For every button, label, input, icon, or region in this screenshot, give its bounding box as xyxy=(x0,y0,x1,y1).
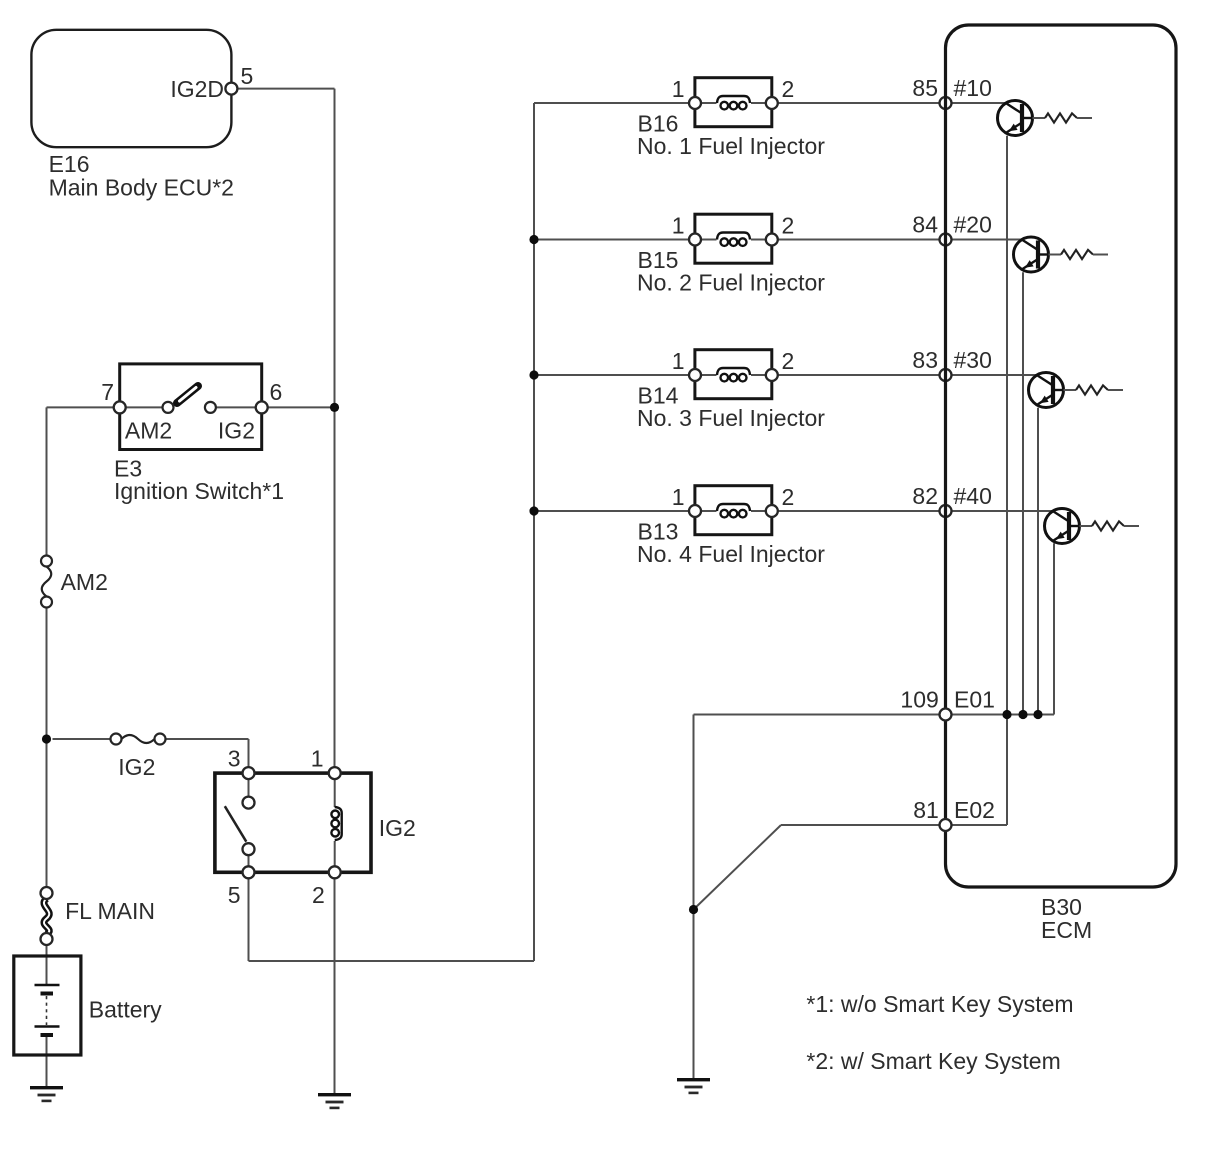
svg-text:AM2: AM2 xyxy=(125,417,172,443)
svg-text:*2: w/ Smart Key System: *2: w/ Smart Key System xyxy=(806,1048,1060,1074)
svg-text:AM2: AM2 xyxy=(61,569,108,595)
svg-text:#40: #40 xyxy=(954,483,992,509)
svg-text:1: 1 xyxy=(672,348,685,374)
svg-text:#30: #30 xyxy=(954,347,992,373)
svg-text:2: 2 xyxy=(312,882,325,908)
svg-text:85: 85 xyxy=(912,75,938,101)
svg-text:No. 4 Fuel Injector: No. 4 Fuel Injector xyxy=(637,541,825,567)
svg-text:#20: #20 xyxy=(954,212,992,238)
svg-text:82: 82 xyxy=(912,483,938,509)
svg-text:No. 2 Fuel Injector: No. 2 Fuel Injector xyxy=(637,270,825,296)
svg-text:*1: w/o Smart Key System: *1: w/o Smart Key System xyxy=(806,991,1073,1017)
svg-text:84: 84 xyxy=(912,212,938,238)
svg-text:IG2: IG2 xyxy=(118,754,155,780)
svg-text:FL MAIN: FL MAIN xyxy=(65,898,155,924)
svg-text:81: 81 xyxy=(913,797,939,823)
svg-text:No. 3 Fuel Injector: No. 3 Fuel Injector xyxy=(637,405,825,431)
svg-text:7: 7 xyxy=(101,379,114,405)
svg-text:IG2: IG2 xyxy=(379,815,416,841)
svg-text:2: 2 xyxy=(782,348,795,374)
svg-text:5: 5 xyxy=(228,882,241,908)
svg-text:Ignition Switch*1: Ignition Switch*1 xyxy=(114,478,284,504)
svg-text:Main Body ECU*2: Main Body ECU*2 xyxy=(49,175,234,201)
svg-text:2: 2 xyxy=(782,213,795,239)
svg-text:109: 109 xyxy=(900,687,938,713)
svg-text:ECM: ECM xyxy=(1041,917,1092,943)
svg-text:E01: E01 xyxy=(954,687,995,713)
svg-text:1: 1 xyxy=(672,213,685,239)
svg-text:1: 1 xyxy=(311,746,324,772)
svg-text:IG2: IG2 xyxy=(218,417,255,443)
svg-text:1: 1 xyxy=(672,484,685,510)
svg-text:83: 83 xyxy=(912,347,938,373)
svg-text:2: 2 xyxy=(782,76,795,102)
svg-text:3: 3 xyxy=(228,746,241,772)
svg-text:#10: #10 xyxy=(954,75,992,101)
svg-text:E16: E16 xyxy=(49,151,90,177)
svg-text:E02: E02 xyxy=(954,797,995,823)
svg-text:6: 6 xyxy=(270,379,283,405)
svg-text:No. 1 Fuel Injector: No. 1 Fuel Injector xyxy=(637,133,825,159)
svg-text:IG2D: IG2D xyxy=(170,76,224,102)
svg-text:2: 2 xyxy=(782,484,795,510)
svg-text:1: 1 xyxy=(672,76,685,102)
svg-text:Battery: Battery xyxy=(89,997,162,1023)
svg-text:5: 5 xyxy=(241,63,254,89)
